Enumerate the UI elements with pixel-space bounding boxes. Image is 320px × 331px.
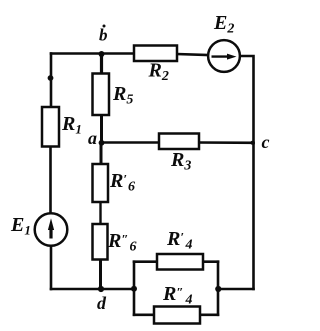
junction dot parallel branch right bbox=[215, 286, 221, 292]
source E1 (circle with up arrow) bbox=[35, 213, 68, 246]
wire top left: corner to node b to R2 bbox=[51, 52, 134, 55]
svg-text:R3: R3 bbox=[170, 149, 191, 174]
wire R5 to node a bbox=[100, 115, 103, 143]
svg-text:R′6: R′6 bbox=[109, 170, 135, 195]
node a junction dot bbox=[99, 140, 105, 146]
resistor R'6 bbox=[93, 164, 109, 202]
wire R'4 to right vertical bbox=[203, 260, 218, 263]
resistor R2 bbox=[134, 46, 177, 62]
node c junction dot bbox=[251, 141, 255, 145]
wire c down to bottom right junction bbox=[252, 143, 255, 289]
junction dot parallel branch left bbox=[131, 286, 137, 292]
wire left vertical to R'4 bbox=[134, 260, 157, 263]
svg-text:E1: E1 bbox=[10, 214, 31, 238]
svg-text:b: b bbox=[99, 26, 108, 45]
label node b bbox=[99, 25, 108, 45]
wire R3 to node c bbox=[199, 141, 254, 144]
wire node a to R'6 bbox=[100, 143, 103, 165]
wire E1 to bottom corner bbox=[50, 247, 53, 290]
junction dot on left branch bbox=[48, 75, 54, 81]
wire R1 to E1 bbox=[49, 147, 52, 213]
wire bottom: corner to node d to parallel branch bbox=[51, 288, 134, 291]
svg-text:R″4: R″4 bbox=[162, 283, 193, 308]
source E2 (circle with right arrow) bbox=[208, 40, 240, 72]
resistor R''4 bbox=[154, 307, 200, 324]
svg-text:R′4: R′4 bbox=[166, 228, 193, 253]
svg-text:R2: R2 bbox=[148, 60, 169, 85]
wire right junction to main right vertical bbox=[218, 288, 254, 291]
resistor R'4 bbox=[157, 254, 203, 270]
wire R2 to E2 bbox=[177, 54, 208, 55]
wire parallel branch right vertical bbox=[217, 262, 220, 315]
wire R''6 to node d bbox=[99, 260, 102, 290]
wire node b to R5 bbox=[100, 54, 103, 74]
wire parallel branch left vertical bbox=[133, 262, 136, 315]
svg-text:a: a bbox=[88, 128, 97, 148]
wire left vertical: top corner down to R1 bbox=[50, 54, 53, 108]
wire left vertical to R''4 bbox=[134, 313, 154, 316]
node b junction dot bbox=[99, 51, 105, 57]
wire R'6 to R''6 bbox=[99, 202, 101, 224]
resistor R1 bbox=[42, 107, 59, 147]
wire node a to R3 bbox=[102, 141, 160, 144]
wire E2 to right corner and down to c bbox=[240, 56, 253, 143]
resistor R''6 bbox=[93, 224, 108, 260]
resistor R3 bbox=[159, 134, 199, 150]
svg-text:d: d bbox=[97, 293, 107, 313]
svg-text:R5: R5 bbox=[112, 83, 133, 108]
svg-text:E2: E2 bbox=[213, 12, 234, 37]
svg-text:c: c bbox=[262, 132, 270, 152]
svg-text:R1: R1 bbox=[61, 113, 82, 137]
svg-text:R″6: R″6 bbox=[107, 230, 137, 255]
wire R''4 to right vertical bbox=[200, 313, 218, 316]
node d junction dot bbox=[98, 286, 104, 292]
resistor R5 bbox=[93, 74, 110, 116]
